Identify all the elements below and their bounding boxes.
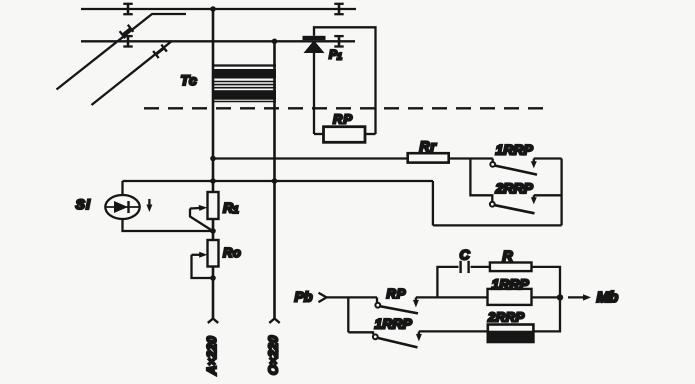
svg-text:1RRP: 1RRP bbox=[492, 276, 530, 292]
wire left rail down to 2RRP bbox=[470, 159, 492, 202]
junction dot Mb node bbox=[557, 294, 563, 300]
svg-text:1RRP: 1RRP bbox=[375, 316, 413, 332]
svg-text:Mb: Mb bbox=[597, 289, 619, 306]
wire C to R bbox=[471, 266, 490, 268]
fuse on tap 2 bbox=[153, 45, 167, 59]
wire A: transformer left leg to Rr bbox=[213, 157, 408, 159]
terminal chevron Pb bbox=[319, 293, 327, 302]
junction dot wire B / left leg bbox=[210, 178, 216, 184]
resistor 2RRP (filled box) bbox=[488, 325, 534, 343]
wire right rail of relay block bbox=[560, 159, 562, 226]
wire RP right lead bbox=[364, 133, 376, 135]
photocell SI bbox=[105, 181, 213, 231]
wire bus line L2 bbox=[81, 40, 355, 42]
wire diode anode down to RP bbox=[313, 53, 315, 134]
terminal A x 220 bbox=[208, 319, 218, 323]
junction dot bus L1 / transformer left leg bbox=[210, 6, 216, 12]
rheostat R1 bbox=[208, 192, 219, 219]
wire 1RRP arrow to right rail bbox=[534, 157, 562, 159]
svg-text:P1: P1 bbox=[329, 48, 342, 62]
wire B corner down to relay block bottom bbox=[432, 181, 434, 225]
junction dot wire A / left leg bbox=[210, 156, 216, 162]
transformer Tc right leg bbox=[273, 41, 276, 318]
svg-text:SI: SI bbox=[76, 196, 92, 212]
fuse on bus L2 left bbox=[123, 36, 132, 46]
junction dot below R1 bbox=[210, 228, 216, 234]
svg-text:RP: RP bbox=[387, 286, 407, 301]
arrow contact 1RRP bbox=[531, 159, 537, 169]
svg-text:2RRP: 2RRP bbox=[495, 180, 534, 196]
contact 1RRP (lower branch) bbox=[348, 332, 417, 347]
wire 2RRP box to Mb node bbox=[533, 297, 560, 331]
wire R to right rail down bbox=[532, 267, 561, 298]
fuse on bus L1 left bbox=[123, 4, 132, 14]
wire branch tap 1 (diagonal) bbox=[57, 14, 187, 90]
fuse on bus L2 right bbox=[334, 36, 343, 46]
junction dot wire B / right leg bbox=[272, 178, 278, 184]
arrow contact 2RRP bbox=[531, 195, 537, 204]
wire RP arrow to node bbox=[416, 296, 488, 298]
fuse on bus L1 right bbox=[334, 4, 343, 14]
wire Rr to switch block bbox=[450, 157, 493, 159]
resistor Rr bbox=[408, 153, 449, 162]
relay contact 1RRP (upper) bbox=[490, 159, 537, 175]
fuse on tap 1 bbox=[120, 25, 134, 39]
wire 2RRP arrow to right rail bbox=[534, 194, 562, 196]
svg-text:Pb: Pb bbox=[295, 289, 313, 305]
contact RP (in Pb line) bbox=[375, 297, 418, 313]
svg-text:2RRP: 2RRP bbox=[487, 310, 525, 325]
svg-text:C: C bbox=[460, 247, 471, 263]
terminal O x 220 bbox=[269, 319, 279, 323]
wire branch tap 2 (diagonal) bbox=[92, 41, 172, 105]
svg-text:R: R bbox=[503, 248, 514, 264]
arrow beside SI bbox=[146, 199, 152, 212]
capacitor C bbox=[461, 261, 469, 273]
svg-text:RP: RP bbox=[333, 111, 353, 126]
wire to 2RRP box bbox=[419, 330, 488, 332]
junction dot bus L2 / transformer right leg bbox=[272, 39, 278, 45]
wire Pb to RP contact bbox=[327, 296, 378, 298]
arrow contact 1RRP lower bbox=[416, 331, 422, 341]
wire 1RRP box to Mb node bbox=[532, 296, 561, 298]
svg-text:O×220: O×220 bbox=[266, 335, 281, 375]
junction dot below Ro bbox=[210, 275, 216, 281]
transformer Tc windings bbox=[212, 66, 276, 102]
wire bottom of relay block bbox=[433, 224, 562, 226]
wire tee down to lower branch bbox=[347, 297, 349, 332]
svg-text:Tc: Tc bbox=[181, 72, 198, 88]
wire node up to C-R branch bbox=[437, 267, 458, 298]
wire RP left lead bbox=[314, 133, 324, 135]
wiper arrow Ro bbox=[192, 252, 214, 278]
wire diode cathode up and over to right rail bbox=[314, 27, 376, 134]
arrow to Mb bbox=[568, 294, 591, 300]
svg-text:R1: R1 bbox=[223, 200, 239, 217]
arrow contact RP bbox=[413, 297, 419, 307]
wiper arrow R1 bbox=[190, 205, 212, 231]
svg-text:A×220: A×220 bbox=[204, 336, 219, 376]
dashed separator line bbox=[144, 107, 550, 109]
resistor 1RRP (coil box) bbox=[488, 289, 532, 305]
svg-text:Rr: Rr bbox=[420, 138, 438, 154]
relay contact 2RRP (lower) bbox=[490, 202, 535, 214]
resistor RP bbox=[324, 127, 366, 143]
transformer Tc left leg bbox=[212, 9, 215, 319]
diode P1 bbox=[303, 36, 326, 53]
wire bus line L1 (top) bbox=[81, 8, 356, 10]
svg-text:Ro: Ro bbox=[223, 245, 241, 260]
resistor R bbox=[490, 263, 532, 272]
svg-text:1RRP: 1RRP bbox=[496, 142, 534, 158]
rheostat Ro bbox=[208, 240, 219, 267]
wire B: SI top to switch block bbox=[123, 180, 434, 182]
